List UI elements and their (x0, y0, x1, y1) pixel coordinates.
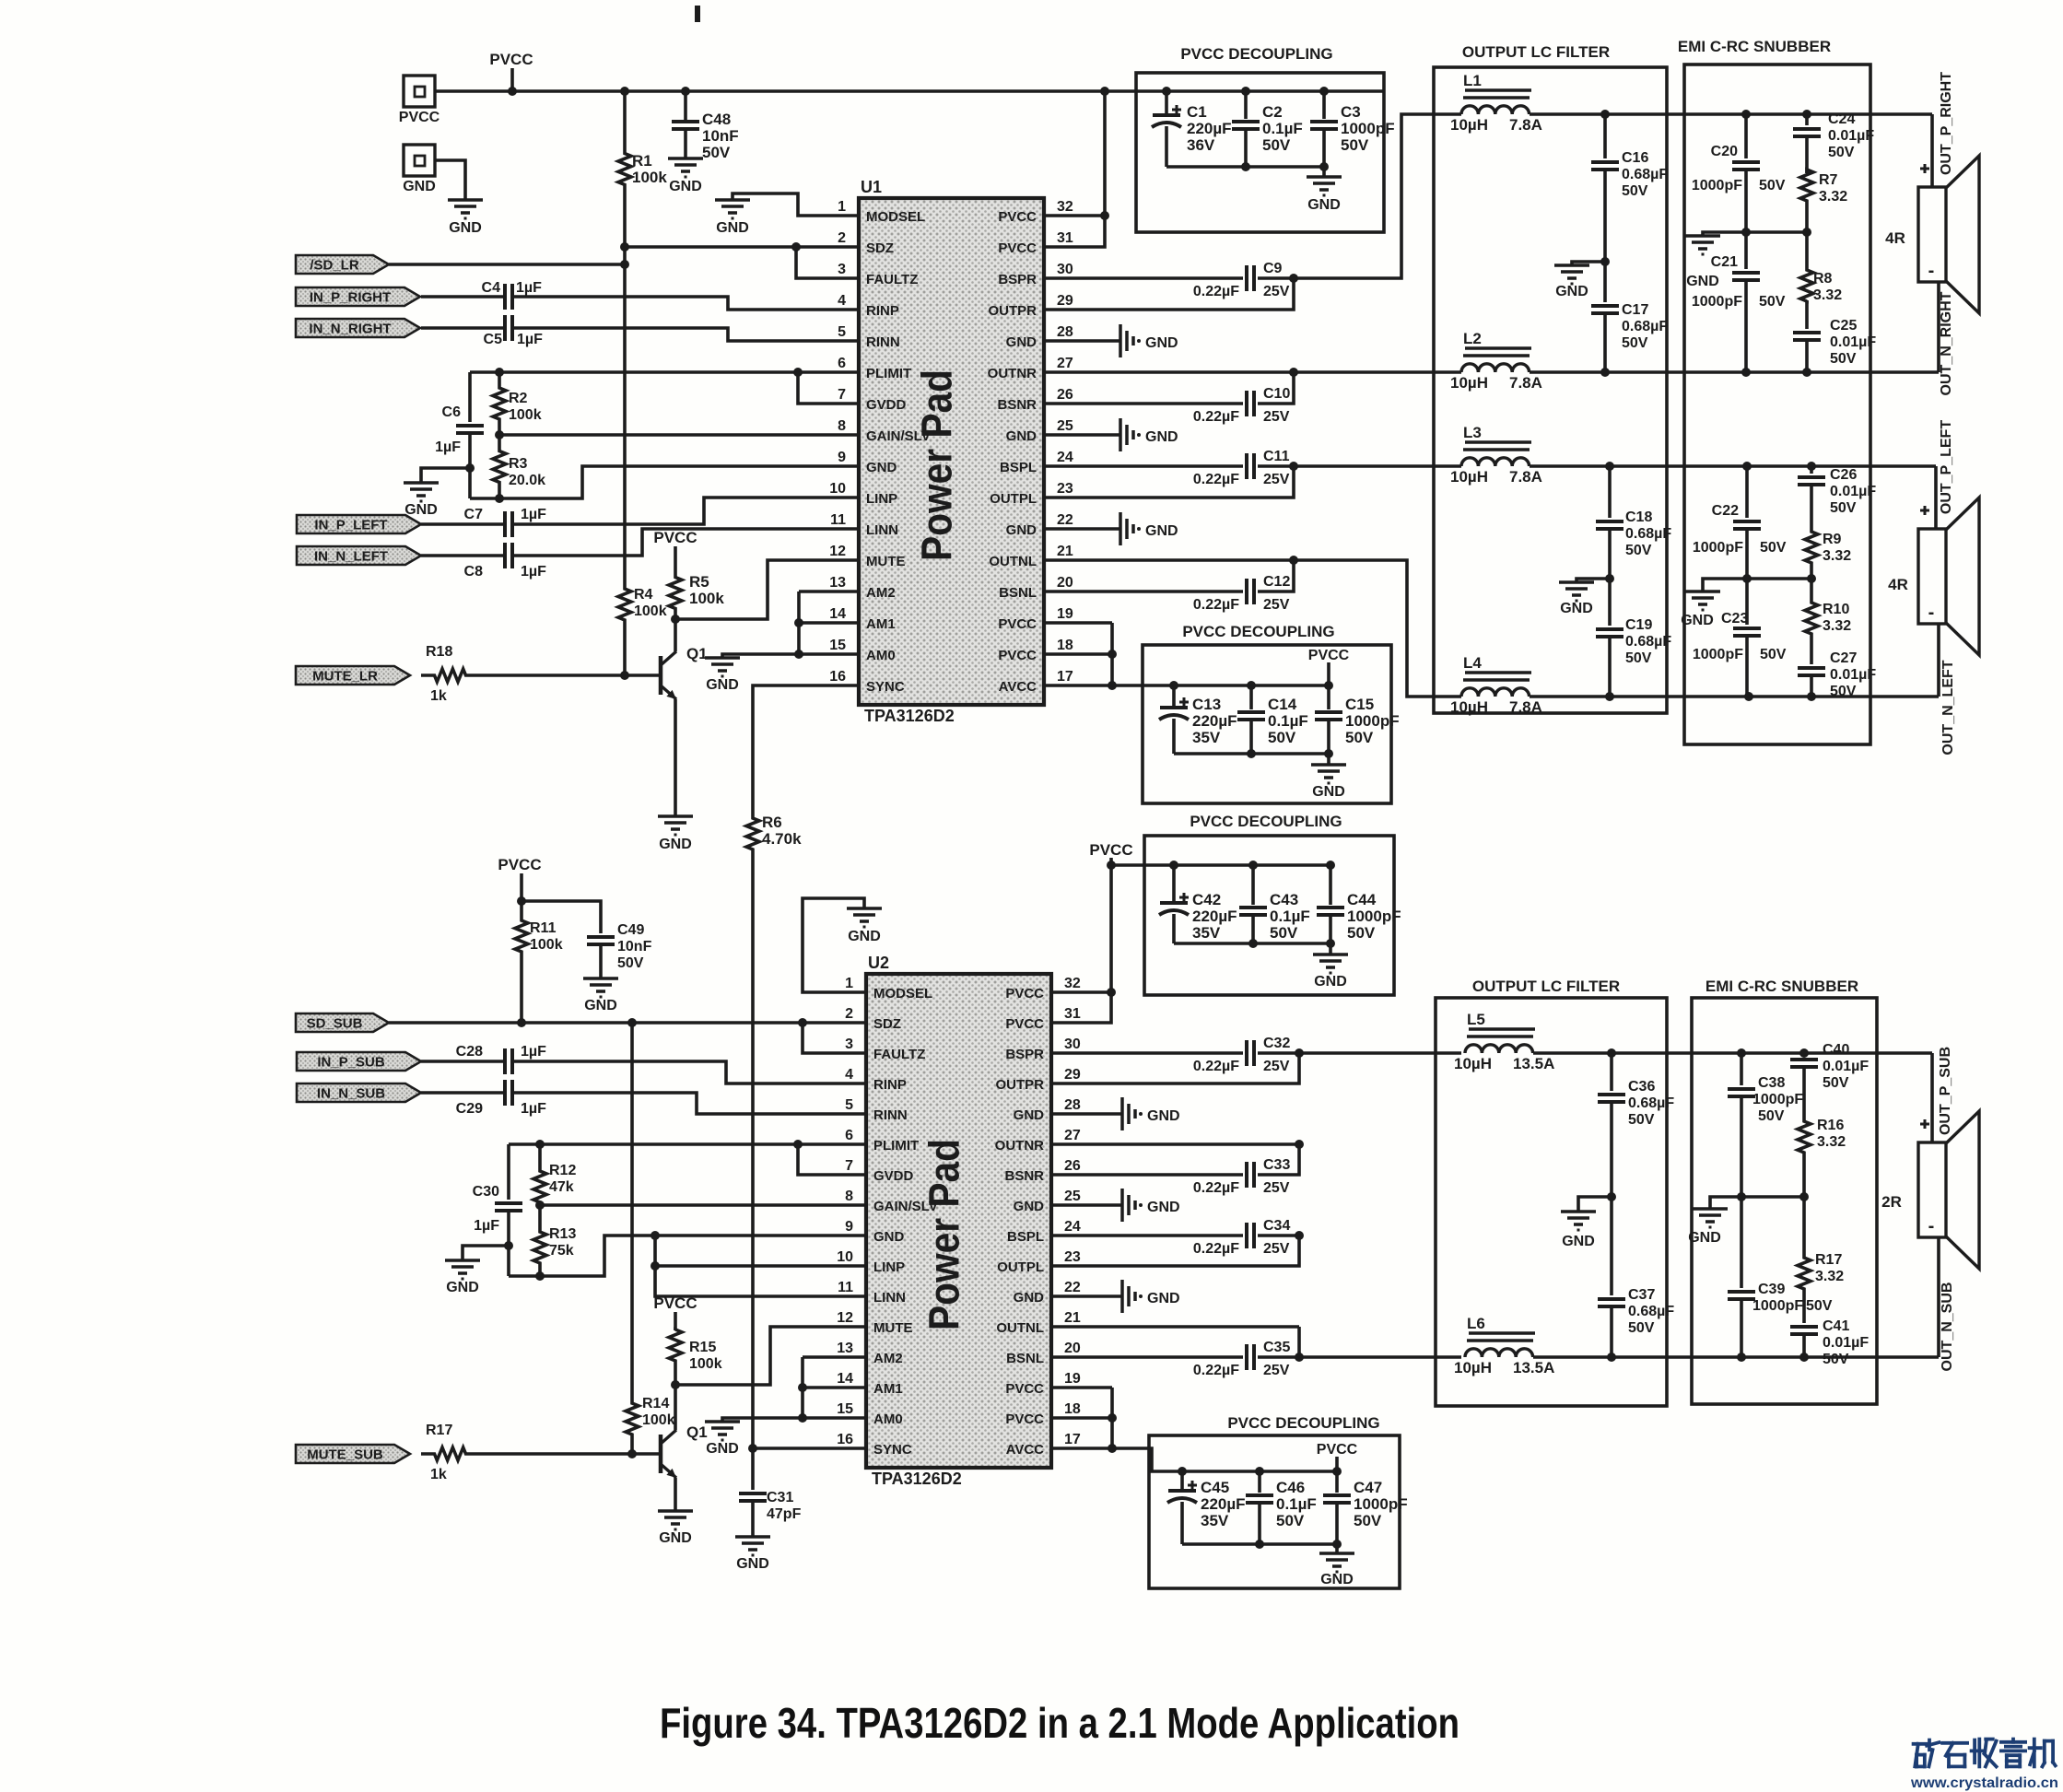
svg-text:0.01µF: 0.01µF (1830, 484, 1876, 499)
resistor R12 47k (533, 1144, 576, 1205)
svg-text:R12: R12 (549, 1163, 576, 1178)
svg-text:25: 25 (1057, 418, 1073, 434)
node PVCC at decoupling box 2 (1308, 648, 1350, 685)
capacitor C24 0.01uF 50V (1793, 111, 1874, 173)
svg-text:GND: GND (1555, 284, 1588, 299)
wire PVCC rail top (435, 89, 1383, 93)
capacitor C4 1uF (421, 280, 859, 310)
capacitor C31 47pF (739, 1448, 802, 1537)
svg-text:GND: GND (1147, 1200, 1180, 1215)
capacitor C35 0.22uF 25V (1051, 1327, 1304, 1378)
svg-text:10µH: 10µH (1450, 468, 1488, 486)
wire U1 pin19 PVCC (1044, 621, 1112, 625)
svg-text:C28: C28 (456, 1044, 483, 1060)
svg-text:C5: C5 (484, 332, 503, 347)
svg-text:100k: 100k (632, 169, 667, 186)
svg-text:OUTPL: OUTPL (997, 1259, 1044, 1275)
svg-text:1000pF: 1000pF (1354, 1495, 1408, 1513)
svg-text:PVCC: PVCC (1308, 648, 1350, 663)
svg-text:10µH: 10µH (1454, 1359, 1492, 1376)
svg-text:R9: R9 (1823, 532, 1842, 547)
svg-text:LINN: LINN (866, 522, 898, 538)
svg-text:MUTE: MUTE (873, 1320, 913, 1336)
svg-text:14: 14 (837, 1371, 853, 1387)
svg-text:4R: 4R (1888, 576, 1908, 593)
capacitor C45 220uF 35V polarized (1167, 1471, 1246, 1544)
svg-text:1000pF: 1000pF (1752, 1298, 1803, 1314)
svg-text:50V: 50V (1270, 924, 1298, 942)
svg-text:GND: GND (659, 1530, 692, 1546)
svg-text:GND: GND (659, 837, 692, 852)
svg-text:0.68µF: 0.68µF (1625, 634, 1671, 650)
svg-text:OUT_N_SUB: OUT_N_SUB (1940, 1283, 1955, 1372)
svg-text:Figure 34. TPA3126D2 in a 2.1: Figure 34. TPA3126D2 in a 2.1 Mode Appli… (660, 1699, 1459, 1747)
svg-text:50V: 50V (1262, 136, 1291, 154)
svg-text:0.22µF: 0.22µF (1193, 597, 1239, 613)
svg-text:5: 5 (838, 324, 846, 340)
svg-text:TPA3126D2: TPA3126D2 (864, 707, 955, 725)
svg-text:7: 7 (838, 387, 846, 403)
svg-text:GND: GND (1145, 523, 1178, 539)
svg-text:24: 24 (1057, 450, 1073, 465)
svg-text:1µF: 1µF (474, 1218, 499, 1234)
svg-text:PVCC DECOUPLING: PVCC DECOUPLING (1180, 45, 1332, 63)
svg-text:R15: R15 (689, 1340, 716, 1355)
svg-text:C47: C47 (1354, 1479, 1382, 1496)
svg-text:SDZ: SDZ (866, 240, 894, 256)
svg-text:L6: L6 (1467, 1315, 1485, 1332)
svg-text:C36: C36 (1628, 1079, 1655, 1095)
U2 pin names right (995, 986, 1044, 1458)
wire AM bus vertical (bottom) (798, 1357, 807, 1423)
capacitor C8 1uF (421, 529, 859, 580)
svg-text:OUT_P_LEFT: OUT_P_LEFT (1939, 420, 1954, 514)
svg-text:GND: GND (736, 1556, 769, 1572)
svg-text:13.5A: 13.5A (1513, 1359, 1554, 1376)
tag MUTE_LR input (296, 666, 410, 685)
svg-text:26: 26 (1057, 387, 1073, 403)
net label OUT_N_SUB (1940, 1283, 1955, 1372)
svg-text:32: 32 (1064, 976, 1081, 991)
capacitor C21 1000pF 50V (1692, 232, 1786, 372)
svg-text:C12: C12 (1263, 574, 1290, 590)
ground at C30 (445, 1246, 509, 1295)
svg-text:22: 22 (1057, 512, 1073, 528)
svg-text:18: 18 (1064, 1401, 1081, 1417)
svg-text:0.1µF: 0.1µF (1276, 1495, 1317, 1513)
svg-text:7: 7 (845, 1158, 853, 1174)
svg-text:R1: R1 (632, 152, 652, 170)
svg-text:BSNR: BSNR (1004, 1168, 1044, 1184)
svg-text:20.0k: 20.0k (509, 473, 545, 488)
svg-text:R14: R14 (642, 1396, 669, 1411)
svg-text:25V: 25V (1263, 1180, 1290, 1196)
svg-text:GAIN/SLV: GAIN/SLV (866, 428, 931, 444)
tag IN_P_SUB input (297, 1052, 421, 1071)
ground at U2 pin25 (1122, 1189, 1180, 1222)
resistor R8 3.32 (1800, 232, 1842, 303)
box PVCC DECOUPLING (C1-C3) (1136, 45, 1384, 232)
wire U2 pin6 PLIMIT (509, 1140, 866, 1149)
wire L1 output OUT_P_RIGHT (1530, 110, 1932, 119)
wire U2 pin25 GND (1051, 1203, 1122, 1207)
svg-text:C49: C49 (617, 922, 644, 938)
svg-text:25V: 25V (1263, 284, 1290, 299)
IC U1 TPA3126D2 body (859, 178, 1044, 725)
svg-text:RINP: RINP (866, 303, 899, 319)
svg-text:www.crystalradio.cn: www.crystalradio.cn (1910, 1775, 2058, 1791)
node PVCC at decoupling box 4 (1317, 1442, 1358, 1471)
svg-text:19: 19 (1057, 606, 1073, 622)
resistor R6 4.70k (746, 792, 802, 875)
node PVCC bottom left (498, 856, 541, 906)
capacitor C12 0.22uF 25V (1044, 560, 1294, 613)
svg-text:GND: GND (1006, 334, 1037, 350)
svg-text:47k: 47k (549, 1179, 574, 1195)
capacitor C27 0.01uF 50V (1798, 645, 1876, 699)
ground below C49 (583, 978, 618, 1013)
svg-text:7.8A: 7.8A (1509, 698, 1542, 716)
svg-text:15: 15 (837, 1401, 853, 1417)
svg-text:U2: U2 (868, 954, 889, 972)
wire decoupling ground bus 2 (1174, 749, 1333, 765)
wire U2 pin7 GVDD (798, 1144, 866, 1175)
ground at snubber right (1685, 236, 1720, 289)
node PVCC at R5 (653, 529, 697, 567)
wire U1 pin17 AVCC (1044, 623, 1159, 690)
capacitor C22 1000pF 50V (1693, 466, 1787, 583)
svg-text:IN_P_SUB: IN_P_SUB (317, 1055, 385, 1071)
svg-text:27: 27 (1057, 356, 1073, 371)
svg-text:3.32: 3.32 (1815, 1269, 1844, 1284)
svg-text:100k: 100k (689, 590, 724, 607)
svg-text:PVCC: PVCC (399, 110, 440, 125)
svg-text:0.68µF: 0.68µF (1628, 1304, 1674, 1319)
svg-text:SYNC: SYNC (873, 1442, 912, 1458)
svg-text:25V: 25V (1263, 472, 1290, 487)
capacitor C42 220uF 35V polarized (1159, 865, 1237, 943)
capacitor C6 1uF (435, 372, 484, 498)
svg-text:50V: 50V (1622, 335, 1648, 351)
svg-text:28: 28 (1064, 1097, 1081, 1113)
wire U1 pin24 BSPL (1044, 464, 1243, 468)
ground at U1 pin25 (1120, 418, 1178, 451)
svg-text:50V: 50V (1823, 1352, 1849, 1367)
ground symbol at U2 MODSEL (847, 908, 882, 944)
wire U2 pin2 SDZ (803, 1021, 866, 1025)
svg-text:OUTPR: OUTPR (996, 1077, 1045, 1093)
svg-text:-: - (1928, 261, 1935, 281)
capacitor C30 1uF (473, 1144, 522, 1276)
svg-text:C26: C26 (1830, 467, 1857, 483)
svg-text:C3: C3 (1341, 103, 1361, 121)
svg-text:LINP: LINP (866, 491, 897, 507)
svg-text:C35: C35 (1263, 1340, 1290, 1355)
svg-text:0.1µF: 0.1µF (1268, 712, 1308, 730)
watermark logo crystalradio (1910, 1739, 2058, 1791)
svg-text:PVCC: PVCC (998, 209, 1037, 225)
svg-text:30: 30 (1057, 262, 1073, 277)
svg-text:20: 20 (1064, 1341, 1081, 1356)
svg-text:13: 13 (837, 1341, 853, 1356)
svg-text:GND: GND (403, 179, 436, 194)
capacitor C26 0.01uF 50V (1798, 466, 1876, 531)
svg-text:BSNL: BSNL (999, 585, 1037, 601)
svg-text:28: 28 (1057, 324, 1073, 340)
transistor Q1 NPN (top) (661, 645, 708, 699)
U1 pin numbers 17-32 (1057, 199, 1073, 685)
svg-text:GND: GND (1147, 1108, 1180, 1124)
wire U2 pin19 PVCC (1051, 1386, 1112, 1389)
speaker right 4R (1885, 156, 1979, 313)
inductor L5 10uH 13.5A (1454, 1011, 1554, 1072)
svg-text:R17: R17 (1815, 1252, 1842, 1268)
wire OUTNR to L2 (1294, 370, 1461, 374)
svg-text:50V: 50V (1759, 178, 1786, 193)
svg-text:15: 15 (829, 638, 846, 653)
svg-text:50V: 50V (1830, 351, 1857, 367)
svg-text:C27: C27 (1830, 650, 1857, 666)
wire U1 pin30 BSPR (1044, 276, 1243, 280)
connector J2 GND (403, 145, 436, 194)
svg-text:IN_N_LEFT: IN_N_LEFT (314, 549, 388, 565)
svg-text:OUTNL: OUTNL (996, 1320, 1044, 1336)
capacitor C32 0.22uF 25V (1193, 1036, 1304, 1074)
svg-text:OUTNL: OUTNL (989, 554, 1037, 569)
svg-text:26: 26 (1064, 1158, 1081, 1174)
svg-text:OUTPL: OUTPL (990, 491, 1037, 507)
capacitor C5 1uF (421, 315, 859, 347)
wire U1 PVCC pins 31 32 to rail (1044, 91, 1109, 247)
svg-text:/SD_LR: /SD_LR (310, 258, 359, 274)
svg-text:50V: 50V (1830, 500, 1857, 516)
wire decoupling ground bus 4 (1182, 1540, 1342, 1553)
svg-text:R13: R13 (549, 1226, 576, 1242)
svg-text:1µF: 1µF (516, 280, 542, 296)
node PVCC at R15 (653, 1294, 697, 1330)
svg-text:R10: R10 (1823, 602, 1849, 617)
svg-text:29: 29 (1057, 293, 1073, 309)
capacitor C9 0.22uF 25V (1193, 261, 1298, 299)
box PVCC DECOUPLING (C13-C15) (1143, 623, 1391, 803)
svg-text:PLIMIT: PLIMIT (866, 366, 911, 381)
svg-text:3.32: 3.32 (1823, 618, 1851, 634)
wire U2 pin11 LINN (655, 1266, 866, 1296)
svg-text:2R: 2R (1881, 1193, 1902, 1211)
capacitor C44 1000pF 50V (1317, 865, 1401, 943)
ground at snubber sub (1688, 1209, 1728, 1246)
svg-text:GND: GND (1145, 429, 1178, 445)
box PVCC DECOUPLING (C45-C47) (1149, 1414, 1400, 1588)
svg-text:IN_P_LEFT: IN_P_LEFT (314, 518, 387, 533)
wire U2 pin24 BSPL (1051, 1234, 1243, 1237)
svg-text:50V: 50V (1830, 684, 1857, 699)
wire decoupling ground bus 1 (1166, 162, 1329, 177)
svg-text:GAIN/SLV: GAIN/SLV (873, 1199, 938, 1214)
svg-text:OUTNR: OUTNR (995, 1138, 1044, 1154)
svg-text:10nF: 10nF (617, 939, 652, 955)
svg-text:1µF: 1µF (521, 1044, 546, 1060)
capacitor C23 1000pF 50V (1693, 579, 1787, 697)
svg-text:OUTPUT LC FILTER: OUTPUT LC FILTER (1462, 43, 1610, 61)
svg-text:1µF: 1µF (521, 507, 546, 522)
svg-text:AM2: AM2 (873, 1351, 903, 1366)
ground symbol at U1 MODSEL (715, 200, 750, 236)
node PVCC above U2 (1089, 841, 1132, 870)
svg-text:75k: 75k (549, 1243, 574, 1259)
svg-text:35V: 35V (1192, 924, 1221, 942)
svg-text:36V: 36V (1187, 136, 1215, 154)
svg-text:C42: C42 (1192, 891, 1221, 908)
svg-text:3.32: 3.32 (1813, 287, 1842, 303)
svg-text:20: 20 (1057, 575, 1073, 591)
svg-text:C39: C39 (1758, 1282, 1785, 1297)
svg-text:1µF: 1µF (435, 439, 461, 455)
inductor L1 10uH 7.8A (1450, 72, 1542, 134)
svg-text:R16: R16 (1817, 1118, 1844, 1133)
ground tap LC filter right (1554, 262, 1605, 299)
U2 pin names left (873, 986, 938, 1458)
wire snubber mid right (1703, 228, 1811, 237)
wire OUTNL to L4 (1294, 560, 1461, 697)
svg-text:L3: L3 (1463, 424, 1482, 441)
resistor R2 100k (493, 372, 542, 435)
svg-text:BSPL: BSPL (1007, 1229, 1044, 1245)
svg-text:LINN: LINN (873, 1290, 906, 1306)
svg-text:-: - (1928, 603, 1935, 623)
capacitor C16 0.68uF 50V (1591, 114, 1668, 266)
svg-text:0.68µF: 0.68µF (1622, 319, 1668, 334)
svg-text:L4: L4 (1463, 654, 1482, 672)
wire SDZ net vertical bus (620, 242, 629, 675)
svg-text:L2: L2 (1463, 330, 1482, 347)
resistor R13 75k (533, 1205, 576, 1276)
capacitor C37 0.68uF 50V (1598, 1197, 1674, 1362)
svg-text:C24: C24 (1828, 111, 1855, 127)
wire U2 pin13 AM2 (803, 1355, 866, 1359)
svg-text:RINN: RINN (866, 334, 900, 350)
net label OUT_P_LEFT (1939, 420, 1954, 514)
svg-text:R5: R5 (689, 573, 709, 591)
svg-text:GVDD: GVDD (866, 397, 907, 413)
svg-text:50V: 50V (1354, 1512, 1382, 1529)
svg-text:MODSEL: MODSEL (866, 209, 925, 225)
svg-text:9: 9 (838, 450, 846, 465)
svg-text:PLIMIT: PLIMIT (873, 1138, 919, 1154)
svg-text:GND: GND (873, 1229, 905, 1245)
svg-text:C1: C1 (1187, 103, 1207, 121)
svg-text:50V: 50V (1341, 136, 1369, 154)
capacitor C18 0.68uF 50V (1596, 466, 1671, 583)
svg-text:4: 4 (838, 293, 846, 309)
svg-text:C45: C45 (1201, 1479, 1229, 1496)
svg-text:50V: 50V (1268, 729, 1296, 746)
svg-text:3.32: 3.32 (1817, 1134, 1846, 1150)
svg-text:47pF: 47pF (767, 1506, 802, 1522)
wire analog ground to U1 pin9 GND (470, 466, 859, 503)
wire U1 pin13 AM2 (799, 590, 859, 593)
box OUTPUT LC FILTER (top) (1434, 43, 1667, 713)
ground at Q1 bottom emitter (658, 1511, 693, 1546)
wire MUTE_SUB to Q1 base (bottom) (479, 1449, 661, 1458)
svg-text:C14: C14 (1268, 696, 1297, 713)
svg-text:PVCC: PVCC (653, 529, 697, 546)
svg-text:SYNC: SYNC (866, 679, 905, 695)
svg-text:IN_N_RIGHT: IN_N_RIGHT (309, 322, 391, 337)
svg-text:3: 3 (838, 262, 846, 277)
capacitor C15 1000pF 50V (1315, 685, 1400, 754)
svg-text:FAULTZ: FAULTZ (866, 272, 918, 287)
wire U1 pin18 PVCC (1044, 650, 1117, 659)
svg-text:6: 6 (845, 1128, 853, 1143)
U2 pin numbers 17-32 (1064, 976, 1081, 1447)
svg-text:10: 10 (829, 481, 846, 497)
svg-text:25V: 25V (1263, 597, 1290, 613)
wire OUTPR to L1 (1294, 114, 1461, 278)
svg-text:27: 27 (1064, 1128, 1081, 1143)
wire U2 pin30 BSPR (1051, 1051, 1243, 1055)
svg-text:LINP: LINP (873, 1259, 905, 1275)
svg-text:0.68µF: 0.68µF (1625, 526, 1671, 542)
svg-text:U1: U1 (861, 178, 882, 196)
svg-text:50V: 50V (1760, 647, 1787, 662)
wire U2 pin28 GND (1051, 1112, 1122, 1116)
svg-text:GND: GND (706, 677, 739, 693)
svg-text:6: 6 (838, 356, 846, 371)
svg-text:25V: 25V (1263, 1241, 1290, 1257)
wire U1 pin27 OUTNR (1044, 368, 1298, 377)
resistor R1 100k (618, 91, 667, 247)
tag IN_N_RIGHT input (296, 319, 420, 337)
svg-text:1000pF: 1000pF (1752, 1092, 1803, 1107)
speaker sub 2R (1881, 1111, 1979, 1269)
svg-text:0.01µF: 0.01µF (1828, 128, 1874, 144)
svg-text:IN_N_SUB: IN_N_SUB (317, 1086, 385, 1102)
svg-text:PVCC: PVCC (1089, 841, 1132, 859)
tag SD_SUB input (296, 1013, 807, 1032)
svg-text:GND: GND (1681, 613, 1714, 628)
svg-text:C34: C34 (1263, 1218, 1290, 1234)
svg-text:3.32: 3.32 (1819, 189, 1847, 205)
svg-text:GND: GND (848, 929, 881, 944)
wire U1 pin29 OUTPR (1044, 278, 1294, 310)
wire U2 PVCC pins 31 32 (1051, 865, 1116, 1023)
svg-text:BSPR: BSPR (998, 272, 1037, 287)
svg-text:AM0: AM0 (873, 1411, 903, 1427)
wire U2 pin21 OUTNL (1051, 1325, 1299, 1329)
svg-text:C8: C8 (464, 564, 484, 580)
svg-text:R7: R7 (1819, 172, 1838, 188)
svg-text:GND: GND (1560, 601, 1593, 616)
svg-text:AVCC: AVCC (1006, 1442, 1045, 1458)
capacitor C40 0.01uF 50V (1790, 1042, 1869, 1115)
wire to left speaker negative (1937, 624, 1940, 697)
svg-text:0.22µF: 0.22µF (1193, 409, 1239, 425)
ground in decoupling box 1 (1307, 177, 1342, 213)
svg-text:25: 25 (1064, 1189, 1081, 1204)
wire decoupling ground bus 3 (1174, 939, 1335, 955)
svg-text:24: 24 (1064, 1219, 1081, 1235)
svg-text:1: 1 (838, 199, 846, 215)
capacitor C33 0.22uF 25V (1051, 1144, 1299, 1196)
transistor Q1 NPN (bottom) (661, 1423, 708, 1478)
ground at snubber left (1681, 591, 1720, 628)
wire decoupling bus 3 (1111, 861, 1335, 870)
capacitor C29 1uF (421, 1080, 866, 1117)
svg-text:13: 13 (829, 575, 846, 591)
svg-text:PVCC: PVCC (998, 616, 1037, 632)
tag IN_N_LEFT input (297, 546, 421, 565)
